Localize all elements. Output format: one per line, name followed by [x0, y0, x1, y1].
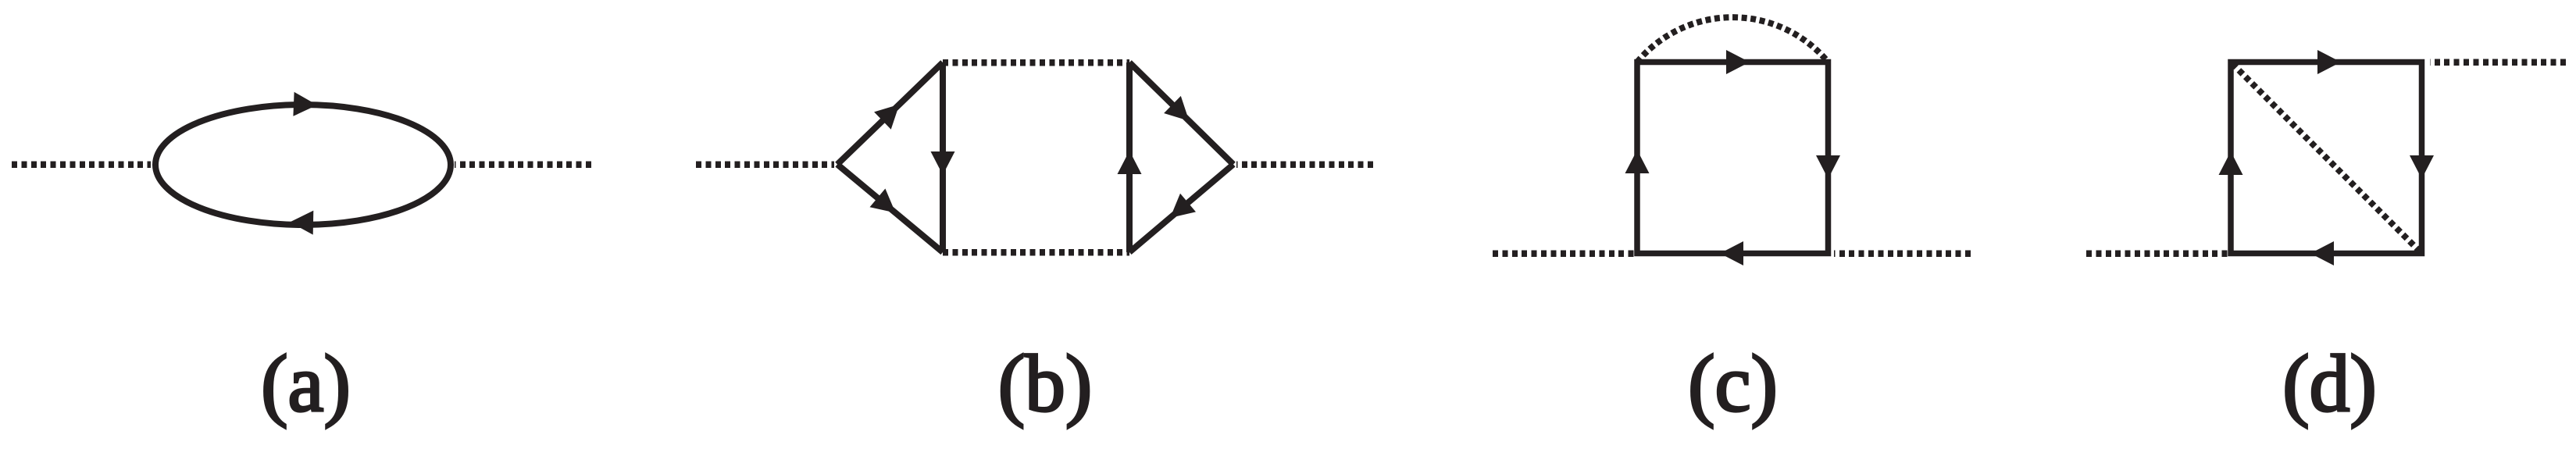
svg-text:(b): (b) [998, 340, 1093, 429]
svg-text:(a): (a) [261, 340, 351, 429]
svg-text:(c): (c) [1688, 340, 1778, 429]
svg-text:(d): (d) [2282, 340, 2377, 429]
